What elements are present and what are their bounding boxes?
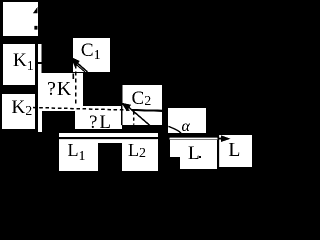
box top-left blank — [3, 2, 38, 36]
box ?K white strip — [38, 44, 42, 132]
label K2 — [12, 98, 33, 119]
C2 dashed vertical — [133, 112, 135, 125]
box ?K lower extension — [38, 106, 75, 111]
box L2 — [122, 139, 158, 171]
dot on top-left box edge — [34, 26, 37, 30]
white patch under ray left of L middle — [170, 140, 180, 157]
L right box left border — [217, 135, 219, 167]
label C2 — [132, 89, 152, 109]
ray over L right box — [219, 138, 222, 140]
white ray segment over gap — [170, 138, 218, 140]
C2 horizontal line — [132, 109, 163, 112]
arrow to C1: lower wing — [71, 60, 85, 72]
box C2 — [121, 85, 162, 126]
label K1 — [13, 51, 34, 74]
label L1 — [68, 141, 86, 164]
white strip above plank — [59, 133, 158, 137]
arrow to C1: shaft — [72, 59, 88, 72]
arrow to C1: head — [70, 57, 80, 68]
label C1 — [81, 41, 101, 63]
label L2 — [128, 141, 146, 161]
label ?K — [47, 79, 72, 99]
box L middle — [180, 140, 217, 170]
ray arrowhead — [221, 135, 231, 142]
black patch over ?K top-left — [42, 43, 74, 73]
label L middle — [188, 144, 200, 163]
box L1 — [59, 139, 98, 171]
dot after L middle — [199, 156, 200, 158]
wedge on top-left box edge — [33, 7, 38, 13]
C2 left border — [121, 85, 123, 126]
small mark below C1 in ?K notch — [73, 74, 75, 80]
plank black line — [59, 137, 158, 139]
box ?K main — [38, 73, 83, 106]
box K2 — [2, 94, 35, 129]
box L right — [218, 135, 252, 168]
white bridge band between L1 and L2 — [98, 139, 123, 142]
box C1 — [73, 38, 111, 72]
dashed line y108 — [33, 108, 134, 111]
K1 right vertical line — [35, 44, 38, 128]
box K1 — [3, 44, 35, 85]
box ?L — [75, 106, 122, 129]
arrow to C2: shaft — [126, 105, 151, 126]
label ?L — [89, 113, 113, 132]
label L right — [228, 140, 240, 160]
box alpha — [168, 108, 206, 133]
tick dash right of K1 — [38, 62, 42, 64]
label alpha — [182, 119, 190, 135]
arrow to C2: head — [121, 103, 131, 112]
?K dashed right edge — [75, 65, 77, 106]
angle arc — [168, 126, 181, 137]
